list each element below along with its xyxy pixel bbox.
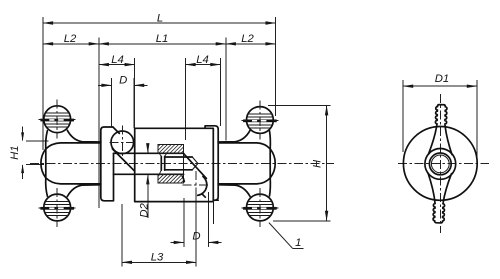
svg-text:D2: D2 bbox=[138, 202, 150, 217]
left end cap bbox=[41, 149, 46, 178]
dimension H1 bbox=[9, 127, 49, 180]
side view hub outer ring bbox=[425, 149, 456, 180]
dimension L4 left bbox=[99, 54, 135, 128]
dimension L1 bbox=[99, 33, 226, 140]
dimension L3 bbox=[122, 196, 196, 267]
dimension L2 left bbox=[43, 33, 99, 208]
inner bore lines bbox=[165, 157, 193, 170]
thread hatch bottom bbox=[158, 174, 183, 183]
thread hatch top bbox=[158, 145, 183, 154]
side view vertical centerline bbox=[439, 94, 441, 233]
left lower wing bbox=[46, 178, 101, 197]
dimension D2 bbox=[138, 144, 150, 218]
section diagonal right bbox=[184, 154, 207, 179]
svg-text:L4: L4 bbox=[196, 54, 209, 66]
right flange chamfer bbox=[202, 194, 205, 197]
side view top wing bbox=[429, 104, 454, 154]
left wing-nut knob bottom bbox=[39, 188, 76, 227]
right wing-screw knob bottom bbox=[241, 188, 278, 227]
main axis centerline bbox=[30, 162, 334, 164]
left wing-nut knob top bbox=[39, 100, 76, 139]
right wing-screw knob top bbox=[241, 101, 278, 140]
thread end line bbox=[183, 153, 185, 174]
shank tube left bbox=[114, 153, 184, 174]
svg-text:H1: H1 bbox=[9, 145, 21, 159]
svg-text:1: 1 bbox=[295, 237, 301, 249]
central body (nut) bbox=[135, 128, 214, 201]
dimension L2 right bbox=[226, 33, 276, 45]
svg-text:L4: L4 bbox=[111, 54, 124, 66]
svg-text:D1: D1 bbox=[435, 73, 449, 85]
svg-text:L2: L2 bbox=[241, 33, 254, 45]
drill point cone bbox=[192, 157, 198, 170]
svg-text:D: D bbox=[119, 75, 127, 87]
right flange disc bbox=[205, 126, 218, 200]
hub bore chamfer ring bbox=[431, 155, 449, 173]
detent ball left bbox=[110, 126, 136, 158]
svg-text:L: L bbox=[157, 12, 163, 24]
svg-text:L1: L1 bbox=[156, 33, 169, 45]
wing edge stub below disc bbox=[213, 200, 215, 224]
dimension L bbox=[43, 12, 276, 150]
dimension D bottom (right ball diameter) bbox=[171, 192, 222, 247]
side view hub bore bbox=[429, 153, 451, 175]
dimension L4 right bbox=[186, 54, 221, 140]
section diagonal left bbox=[112, 149, 134, 171]
dimension H bbox=[268, 105, 331, 221]
left upper wing bbox=[46, 130, 101, 149]
left flange disc bbox=[101, 127, 120, 201]
svg-text:L3: L3 bbox=[151, 252, 164, 264]
detent ball right bbox=[182, 171, 209, 199]
side view bottom wing bbox=[427, 173, 452, 223]
dimension D1 (side view) bbox=[403, 73, 477, 158]
right upper wing bbox=[218, 130, 270, 149]
right end cap bbox=[270, 149, 275, 178]
dimension D top (ball diameter) bbox=[98, 75, 148, 128]
leader line for item 1 bbox=[269, 223, 303, 249]
svg-text:L2: L2 bbox=[64, 33, 77, 45]
side view horizontal centerline bbox=[398, 162, 489, 164]
screw tip end face bbox=[161, 156, 164, 170]
right lower wing bbox=[218, 178, 270, 197]
side view body circle bbox=[403, 126, 477, 200]
